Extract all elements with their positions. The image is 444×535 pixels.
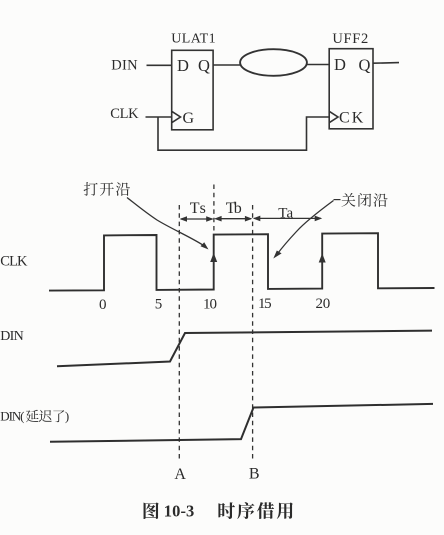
svg-text:Tb: Tb: [226, 200, 242, 217]
combinational logic ellipse: [240, 49, 307, 76]
svg-text:0: 0: [99, 297, 107, 313]
dashed line at node B (x=252.6): [252, 205, 254, 461]
wire ellipse to U2 pin D: [307, 64, 329, 66]
Ts interval double arrow: [180, 216, 214, 222]
svg-text:CLK: CLK: [110, 106, 139, 122]
svg-text:ULAT1: ULAT1: [171, 32, 215, 47]
dashed line at node A (x=179): [178, 205, 180, 461]
svg-text:UFF2: UFF2: [332, 31, 368, 47]
arrowhead of closing-edge leader: [273, 251, 281, 259]
DIN waveform: [57, 331, 432, 367]
svg-text:D: D: [334, 55, 346, 74]
svg-text:Ta: Ta: [278, 205, 293, 221]
svg-text:20: 20: [316, 296, 331, 312]
flip-flop U2 body (UFF2): [329, 49, 373, 129]
svg-text:B: B: [249, 465, 260, 482]
svg-text:5: 5: [155, 297, 163, 313]
svg-text:DIN(: DIN(: [0, 409, 24, 424]
up arrow on rising edge t=20: [319, 253, 326, 287]
U2 clock pin CK triangle: [329, 111, 338, 122]
svg-text:10-3: 10-3: [164, 502, 195, 521]
annotation label "opening edge" (打开沿): [84, 182, 130, 196]
leader curve from opening-edge label to rising edge at t=10: [127, 198, 207, 248]
Ta interval double arrow: [253, 216, 322, 222]
arrowhead of opening-edge leader: [201, 242, 209, 249]
DIN delayed waveform: [50, 404, 433, 442]
wire DIN input to U1 pin D: [147, 64, 172, 66]
svg-text:CK: CK: [339, 110, 364, 127]
svg-text:D: D: [177, 56, 189, 75]
wire U2 Q output: [373, 62, 399, 65]
short dashed line above rising edge t=10: [213, 185, 215, 234]
svg-text:Q: Q: [359, 56, 371, 75]
svg-text:CLK: CLK: [0, 254, 28, 270]
svg-text:10: 10: [203, 296, 217, 312]
caption 图 10-3 时序借用: [144, 502, 159, 519]
latch U1 body (ULAT1): [172, 50, 213, 130]
svg-text:Ts: Ts: [190, 200, 206, 217]
svg-text:DIN: DIN: [111, 58, 138, 74]
wire U1 Q output to combinational ellipse: [213, 64, 240, 66]
svg-text:Q: Q: [198, 56, 210, 75]
U1 clock pin G triangle: [172, 111, 181, 122]
leader curve from closing-edge label to falling edge at t=15: [277, 201, 334, 256]
wire CLK input to U1 pin G: [146, 116, 172, 118]
svg-text:15: 15: [258, 296, 272, 312]
svg-text:DIN: DIN: [0, 329, 23, 344]
svg-text:A: A: [174, 466, 186, 483]
annotation label "closing edge" (关闭沿) with leading dash: [334, 199, 341, 201]
wire CLK branch: vertical drop at junction: [158, 117, 329, 150]
CLK waveform: [49, 233, 435, 290]
Tb interval double arrow: [214, 216, 252, 222]
svg-text:G: G: [183, 110, 195, 127]
up arrow on rising edge t=10: [210, 253, 217, 288]
svg-text:): ): [65, 409, 69, 424]
